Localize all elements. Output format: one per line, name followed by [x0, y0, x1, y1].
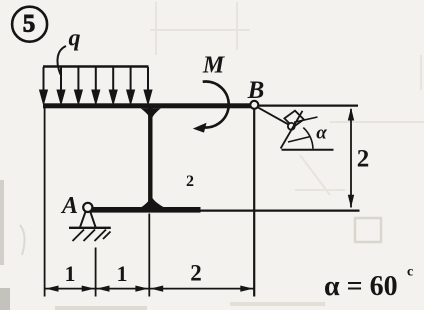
q leader line — [57, 46, 66, 75]
svg-text:c: c — [407, 265, 413, 280]
svg-text:2: 2 — [190, 261, 202, 286]
top right thin line from B — [258, 104, 358, 106]
support ground line at B — [282, 149, 334, 151]
svg-text:A: A — [60, 193, 78, 219]
roller support link at B — [258, 107, 289, 125]
svg-text:5: 5 — [23, 11, 36, 38]
extension line below B — [253, 110, 255, 297]
svg-text:2: 2 — [186, 173, 194, 190]
background ghost marks (bleed-through) — [20, 2, 424, 255]
svg-text:α: α — [316, 123, 327, 144]
moment M arrowhead — [193, 123, 207, 133]
bottom beam (thick) — [92, 207, 201, 213]
bottom dimension line — [45, 288, 255, 290]
pin support A: circle — [83, 203, 92, 212]
moment M arc — [200, 82, 229, 128]
top gusset — [141, 108, 162, 120]
circled problem number 5 — [12, 7, 47, 42]
left extension line — [44, 104, 46, 297]
pin support A: hatching — [73, 230, 111, 242]
bottom gusset — [140, 196, 165, 208]
svg-text:2: 2 — [357, 146, 370, 173]
incline hatch lower — [288, 137, 311, 143]
distributed load q top line — [43, 65, 149, 67]
vertical member (column) — [148, 107, 152, 210]
right dimension line — [350, 109, 352, 208]
extension line below column — [148, 214, 150, 297]
svg-text:1: 1 — [117, 261, 128, 286]
pin support A: ground line — [69, 227, 111, 229]
bottom right thin line — [200, 210, 360, 212]
extension line below A — [95, 248, 97, 297]
svg-text:1: 1 — [65, 261, 76, 286]
distributed load arrows — [40, 67, 151, 103]
incline surface line (60 deg) — [281, 111, 303, 149]
top beam (thick) — [43, 103, 251, 108]
hinge circle B — [250, 101, 258, 109]
roller pin circle — [288, 123, 295, 130]
pin support A: triangle legs — [80, 211, 96, 227]
incline hatch upper — [294, 117, 318, 122]
svg-text:α = 60: α = 60 — [324, 271, 398, 302]
dimension arrowheads bottom — [46, 286, 254, 292]
angle alpha arc — [303, 128, 313, 149]
roller block (tilted square) — [284, 111, 303, 127]
svg-text:q: q — [69, 26, 81, 52]
svg-text:M: M — [202, 53, 226, 79]
